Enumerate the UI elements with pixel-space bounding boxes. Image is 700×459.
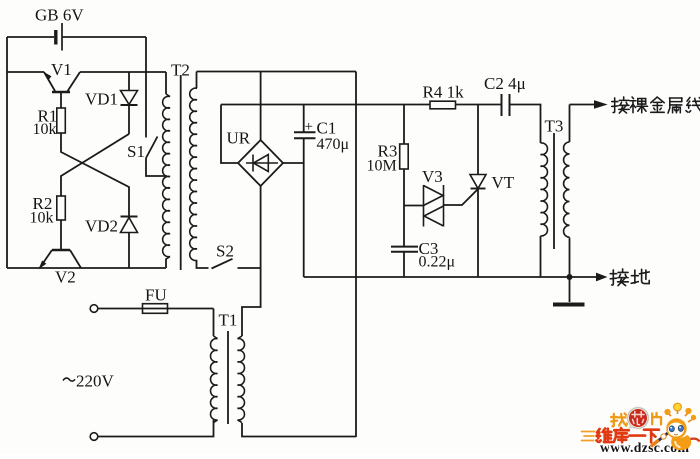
arrow to bare metal wire	[595, 101, 607, 108]
mascot antenna stems	[668, 409, 693, 422]
resistor R2	[57, 196, 66, 220]
transistor V1	[44, 72, 80, 108]
svg-text:+: +	[305, 119, 313, 135]
switch S2	[212, 259, 233, 269]
wire T1 primary bottom lead	[98, 420, 214, 437]
mascot body	[671, 435, 691, 450]
svg-text:0.22μ: 0.22μ	[419, 254, 456, 271]
wire main mid row	[221, 104, 430, 106]
wire V1 collector row	[80, 71, 166, 73]
wire long right rail	[355, 72, 357, 438]
wire T3 secondary bottom lead	[569, 238, 571, 278]
wire battery drop to S1	[145, 37, 147, 138]
junction node at ground tap	[567, 274, 573, 280]
wire T1 primary top lead	[213, 309, 215, 337]
mascot pen	[654, 431, 672, 445]
wire left rail	[6, 37, 8, 268]
wire T2 primary top lead	[165, 72, 167, 94]
wire R4 to C2	[456, 104, 502, 106]
switch S1	[146, 137, 158, 159]
svg-text:10M: 10M	[367, 158, 397, 175]
net label: earth connection (jie di)	[610, 269, 649, 286]
transformer T3 secondary winding	[564, 142, 570, 237]
svg-text:S2: S2	[216, 242, 234, 261]
wire VD1 cross-couple diagonal to R2	[61, 134, 129, 196]
wire fuse row	[98, 308, 214, 310]
svg-text:VD1: VD1	[85, 90, 118, 109]
capacitor C3	[391, 247, 418, 252]
mascot eyes	[669, 426, 674, 432]
watermark mascot	[652, 403, 700, 450]
terminal top	[90, 305, 98, 313]
transformer T3 core	[553, 133, 555, 249]
diode VD2	[121, 217, 138, 269]
resistor R3	[400, 144, 409, 169]
svg-text:V1: V1	[51, 60, 72, 79]
svg-text:VT: VT	[492, 173, 515, 192]
net label: connect bare metal wire (jie luo jin shu xian)	[612, 97, 700, 113]
svg-text:C2 4μ: C2 4μ	[484, 74, 526, 93]
svg-text:R4 1k: R4 1k	[423, 83, 465, 102]
wire UR right to C1	[283, 162, 304, 164]
wire output row to arrow	[570, 104, 596, 106]
transformer T2 core	[180, 75, 182, 270]
fuse FU	[143, 304, 168, 314]
wire V3 left lead	[404, 205, 424, 207]
wire VT cathode drop	[477, 189, 479, 278]
wire C2 to T3 primary	[510, 105, 541, 144]
resistor R1	[57, 108, 66, 133]
wire T1 secondary bottom lead	[242, 423, 356, 437]
wire R3 top lead	[403, 105, 405, 145]
terminal bottom	[90, 433, 98, 441]
wire V1 emitter feed	[7, 71, 44, 73]
ground symbol	[553, 277, 585, 305]
mascot ribbon	[691, 439, 700, 442]
arrow to earth	[597, 273, 607, 280]
wire V3 right lead to VT gate	[444, 189, 479, 205]
wire fuse element line	[143, 308, 168, 310]
wire T2 primary bottom lead	[165, 259, 167, 269]
wire R1 bottom cross-couple diagonal to VD2	[61, 133, 129, 217]
wire S2 to UR bottom rail	[238, 267, 261, 269]
svg-text:V2: V2	[55, 268, 76, 287]
transformer T1 core	[227, 331, 229, 424]
watermark char pian (gold, white cased)	[652, 413, 661, 425]
watermark speed lines	[582, 432, 597, 441]
capacitor C1	[294, 132, 316, 138]
wire UR left riser	[221, 105, 238, 164]
svg-text:10k: 10k	[30, 210, 54, 227]
svg-text:S1: S1	[127, 142, 145, 161]
svg-text:T2: T2	[171, 61, 190, 80]
svg-text:VD2: VD2	[85, 217, 118, 236]
transformer T2 primary winding	[163, 94, 170, 259]
wire VT anode drop	[477, 105, 479, 175]
mascot hand	[661, 434, 666, 439]
wire C1 bottom lead and drop	[303, 139, 305, 278]
transformer T3 primary winding	[541, 143, 548, 236]
mascot head	[666, 418, 686, 438]
wire T3 secondary top lead	[569, 105, 571, 143]
diode VD1	[121, 72, 138, 134]
thyristor VT	[470, 175, 486, 189]
diac V3	[424, 185, 444, 227]
wire C3 bottom lead	[403, 252, 405, 278]
wire T3 primary bottom lead	[540, 236, 542, 277]
capacitor C2	[502, 94, 510, 116]
wire bottom left row	[7, 267, 166, 269]
rectifier UR inner diode	[246, 155, 278, 172]
wire T2 secondary top lead	[196, 72, 198, 89]
mascot antenna balls	[664, 409, 670, 415]
wire battery left segment	[7, 36, 54, 38]
mascot mouth	[674, 433, 678, 436]
transistor V2	[40, 220, 81, 268]
wire C1 top lead	[303, 105, 305, 133]
watermark magnifier circle with xin	[626, 408, 649, 433]
rectifier UR diamond	[238, 140, 283, 186]
transformer T2 secondary winding	[190, 88, 197, 261]
svg-text:C1: C1	[317, 119, 337, 138]
watermark char zhao (gold, white cased)	[611, 413, 627, 426]
resistor R4	[430, 101, 456, 109]
svg-text:UR: UR	[227, 129, 251, 148]
wire R3 bottom lead to V3 node	[403, 169, 405, 247]
svg-text:10k: 10k	[33, 121, 57, 138]
svg-text:T3: T3	[545, 117, 564, 136]
wire top row to long rail	[197, 71, 357, 73]
wire bottom ground row	[304, 276, 597, 278]
svg-text:FU: FU	[145, 286, 167, 305]
svg-text:470μ: 470μ	[317, 136, 350, 153]
wire S1 tap row	[146, 158, 167, 176]
svg-text:V3: V3	[422, 167, 443, 186]
wire battery right segment to top-right corner	[62, 36, 146, 38]
watermark wei ku yi xia (red, white cased)	[596, 428, 658, 442]
wire UR bottom drop	[242, 186, 261, 336]
wire UR top riser	[260, 72, 262, 141]
svg-text:T1: T1	[219, 311, 238, 330]
transformer T1 secondary winding	[238, 336, 245, 423]
wire T2 secondary bottom lead	[197, 260, 209, 268]
battery GB 6V	[56, 23, 62, 51]
transformer T1 primary winding	[211, 336, 218, 423]
svg-text:GB 6V: GB 6V	[35, 6, 84, 25]
svg-text:220V: 220V	[76, 372, 115, 391]
